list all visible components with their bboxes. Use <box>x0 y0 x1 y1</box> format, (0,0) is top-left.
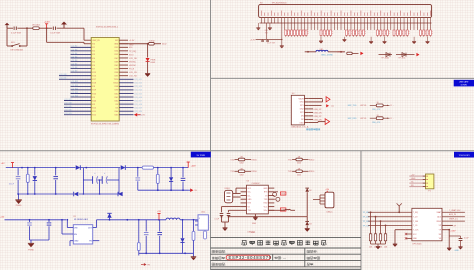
svg-text:100uF: 100uF <box>9 184 15 186</box>
svg-text:IO20: IO20 <box>92 93 96 95</box>
svg-text:IO39: IO39 <box>114 90 118 92</box>
svg-text:0402: 0402 <box>240 175 244 177</box>
svg-text:TP_IRQ: TP_IRQ <box>363 212 371 214</box>
svg-text:LCD_B5: LCD_B5 <box>71 56 77 58</box>
svg-text:0.1uF X5R: 0.1uF X5R <box>50 33 60 35</box>
svg-text:CHIP_PU: CHIP_PU <box>92 40 100 42</box>
svg-text:UD-: UD- <box>248 195 252 197</box>
svg-text:USB_DN: USB_DN <box>314 119 323 121</box>
svg-text:LCD_R3: LCD_R3 <box>129 72 138 74</box>
svg-text:RX0_4.7K: RX0_4.7K <box>372 109 381 111</box>
svg-text:PGND: PGND <box>16 205 22 207</box>
svg-text:LCD_G15: LCD_G15 <box>134 93 142 95</box>
svg-text:USB UART: USB UART <box>459 81 469 84</box>
svg-text:IO19: IO19 <box>92 90 96 92</box>
svg-text:IO13: IO13 <box>114 47 118 49</box>
svg-text:T_DO: T_DO <box>413 217 418 219</box>
svg-text:IO15: IO15 <box>92 72 96 74</box>
svg-text:DN1: DN1 <box>300 102 304 104</box>
svg-text:IO21: IO21 <box>114 54 118 56</box>
svg-text:USB1: USB1 <box>225 188 231 190</box>
svg-text:HSYNC: HSYNC <box>129 65 137 67</box>
svg-text:LCD_G11: LCD_G11 <box>134 79 141 81</box>
svg-text:IO41: IO41 <box>114 97 118 99</box>
svg-text:IO1: IO1 <box>92 47 95 49</box>
svg-text:0R 0402: 0R 0402 <box>32 25 41 27</box>
svg-text:DP2: DP2 <box>300 112 304 114</box>
svg-text:UD+: UD+ <box>248 192 252 194</box>
svg-text:LCD_B17: LCD_B17 <box>64 99 71 101</box>
svg-text:TP_SDA: TP_SDA <box>381 57 389 60</box>
svg-text:LCD_B7: LCD_B7 <box>71 63 77 65</box>
svg-text:LCD_R4: LCD_R4 <box>129 76 138 78</box>
svg-text:RXD0: RXD0 <box>251 171 257 173</box>
svg-text:D2: D2 <box>309 190 311 192</box>
svg-text:RXD0: RXD0 <box>114 83 119 85</box>
svg-text:T_DIN: T_DIN <box>413 221 419 223</box>
svg-text:RXD0: RXD0 <box>309 171 315 173</box>
svg-text:IO7: IO7 <box>92 68 95 70</box>
svg-text:IO1: IO1 <box>115 107 118 109</box>
svg-text:TP_IRQ: TP_IRQ <box>129 51 137 53</box>
svg-text:IO40: IO40 <box>114 93 118 95</box>
svg-text:LCD_B8: LCD_B8 <box>71 67 77 69</box>
svg-text:IO2: IO2 <box>92 51 95 53</box>
svg-text:LCD_G17: LCD_G17 <box>134 100 142 102</box>
svg-text:LCD_G18: LCD_G18 <box>134 104 142 106</box>
svg-text:IO36: IO36 <box>114 72 118 74</box>
svg-text:0.1uF X5R: 0.1uF X5R <box>267 42 276 44</box>
svg-text:TP_DIN: TP_DIN <box>363 221 371 223</box>
svg-text:LCD_B11: LCD_B11 <box>59 78 66 80</box>
svg-text:VREF_2.5: VREF_2.5 <box>449 219 458 221</box>
svg-text:LCD_B18: LCD_B18 <box>64 103 71 105</box>
svg-text:AUX_IN: AUX_IN <box>449 213 456 216</box>
svg-text:+5V: +5V <box>325 189 329 191</box>
svg-text:+3.3V: +3.3V <box>250 39 256 41</box>
svg-text:TXD: TXD <box>288 171 293 173</box>
svg-text:KEY: KEY <box>11 42 16 44</box>
svg-text:IO17: IO17 <box>92 79 96 81</box>
svg-text:TXD: TXD <box>230 171 235 173</box>
svg-text:IO8: IO8 <box>92 86 95 88</box>
svg-text:V3: V3 <box>265 195 267 197</box>
svg-text:(x): (x) <box>332 106 335 108</box>
svg-text:VSYNC: VSYNC <box>129 61 136 63</box>
svg-text:IO6: IO6 <box>92 65 95 67</box>
svg-text:TFT-S070WV20: TFT-S070WV20 <box>272 2 288 4</box>
svg-text:U0TXD: U0TXD <box>360 105 367 107</box>
svg-text:IO5: IO5 <box>92 61 95 63</box>
svg-text:IO16: IO16 <box>92 76 96 78</box>
svg-text:IO9: IO9 <box>92 104 95 106</box>
svg-text:USB-C: USB-C <box>326 212 333 214</box>
svg-text:LCD_G12: LCD_G12 <box>134 83 142 85</box>
svg-text:GND: GND <box>251 232 256 234</box>
svg-text:D3: D3 <box>309 223 311 225</box>
svg-text:LCD_BL: LCD_BL <box>337 52 344 54</box>
svg-text:IO46: IO46 <box>92 100 96 102</box>
svg-text:T_VBAT 3.3V: T_VBAT 3.3V <box>449 209 461 212</box>
svg-text:LCD_G20: LCD_G20 <box>134 111 142 113</box>
svg-text:GND: GND <box>299 122 304 124</box>
svg-text:TP_SCL: TP_SCL <box>398 58 405 60</box>
svg-text:GND: GND <box>411 178 416 180</box>
svg-text:LCD_B16: LCD_B16 <box>71 95 78 97</box>
svg-text:ESP_RXD: ESP_RXD <box>348 118 357 120</box>
svg-text:GND_DGND: GND_DGND <box>321 54 333 56</box>
svg-text:DP1: DP1 <box>300 105 304 107</box>
svg-text:LCD_B15: LCD_B15 <box>71 92 78 94</box>
svg-text:GND: GND <box>129 45 134 47</box>
svg-text:: ---: : --- <box>281 256 286 260</box>
svg-text:ESP32-S3-WROOM-1: ESP32-S3-WROOM-1 <box>96 27 119 29</box>
svg-text:LCD_B14: LCD_B14 <box>71 88 78 90</box>
svg-text:TP_DO: TP_DO <box>363 217 370 219</box>
svg-text:+5V: +5V <box>0 216 4 218</box>
svg-text:RX0_4.7K: RX0_4.7K <box>372 122 381 124</box>
svg-text:ESP32-8048S070: ESP32-8048S070 <box>229 255 272 260</box>
svg-text:TXD: TXD <box>230 159 235 161</box>
svg-text:IO12: IO12 <box>92 115 96 117</box>
svg-text:LCD_G13: LCD_G13 <box>134 86 142 88</box>
svg-text:LCD_B20: LCD_B20 <box>64 110 71 112</box>
svg-text:ESP32-S3-WROOM-1-N8R2: ESP32-S3-WROOM-1-N8R2 <box>91 123 120 125</box>
svg-text:IO10: IO10 <box>92 107 96 109</box>
svg-text:GND: GND <box>455 250 460 252</box>
svg-text:+3.3V: +3.3V <box>129 40 135 42</box>
svg-text:+5V: +5V <box>1 163 5 165</box>
svg-text:IO38: IO38 <box>114 86 118 88</box>
svg-text:XL1509-5.0E1: XL1509-5.0E1 <box>74 219 89 221</box>
svg-text:LCD_B10: LCD_B10 <box>59 74 66 76</box>
svg-text:PGND: PGND <box>28 250 34 252</box>
svg-text:LCD_B19: LCD_B19 <box>64 106 71 108</box>
svg-text:LCD_G19: LCD_G19 <box>134 107 142 109</box>
svg-text:IO14: IO14 <box>114 51 118 53</box>
svg-text:IO11: IO11 <box>92 111 96 113</box>
svg-text:TXD: TXD <box>288 159 293 161</box>
svg-text:LCD_G16: LCD_G16 <box>134 97 142 99</box>
svg-text:RXD0: RXD0 <box>309 159 315 161</box>
svg-text:IO43: IO43 <box>114 115 118 117</box>
svg-text:IO2: IO2 <box>115 104 118 106</box>
svg-text:IO35: IO35 <box>114 68 118 70</box>
svg-text:LCD_B6: LCD_B6 <box>71 60 77 62</box>
svg-text:3V3: 3V3 <box>115 40 118 42</box>
svg-text:VREF: VREF <box>436 221 441 223</box>
svg-text:VBUS: VBUS <box>298 98 304 100</box>
svg-text:LCD_G14: LCD_G14 <box>134 90 142 92</box>
svg-text:IO18: IO18 <box>92 83 96 85</box>
svg-text:IO3: IO3 <box>92 97 95 99</box>
svg-text::: : <box>314 263 315 267</box>
svg-text:USB_DP: USB_DP <box>314 116 323 118</box>
svg-text:0402: 0402 <box>297 163 301 165</box>
svg-text:IO44: IO44 <box>114 111 118 113</box>
svg-text:1: 1 <box>199 218 200 220</box>
svg-text:LCD_B13: LCD_B13 <box>71 85 78 87</box>
svg-text:0402: 0402 <box>297 175 301 177</box>
svg-text:LCD_B4: LCD_B4 <box>71 53 77 55</box>
svg-text:USB_DN: USB_DN <box>314 112 323 114</box>
svg-text:PCLK: PCLK <box>129 69 135 71</box>
svg-text:IO37: IO37 <box>114 76 118 78</box>
svg-text:0402: 0402 <box>240 163 244 165</box>
svg-text:GND: GND <box>74 241 79 243</box>
svg-text:U0TXD: U0TXD <box>360 118 367 120</box>
svg-text:XPT2046: XPT2046 <box>412 243 422 245</box>
svg-text:T_CLK: T_CLK <box>413 230 419 232</box>
svg-text:DOWN: DOWN <box>461 85 468 87</box>
svg-text:T_IRQ: T_IRQ <box>413 212 419 214</box>
svg-text:+5V: +5V <box>157 211 161 213</box>
svg-text:IO42: IO42 <box>114 100 118 102</box>
svg-text:KEY-SW0601: KEY-SW0601 <box>11 49 24 51</box>
svg-text:LCD_B3: LCD_B3 <box>71 49 77 51</box>
svg-text:LCD_B12: LCD_B12 <box>71 81 78 83</box>
svg-text:ESP_TXD: ESP_TXD <box>348 105 357 107</box>
svg-text:IO4: IO4 <box>92 58 95 60</box>
svg-text:RXD0: RXD0 <box>251 159 257 161</box>
svg-text:10KΩ: 10KΩ <box>149 41 155 43</box>
svg-text:LCD_B9: LCD_B9 <box>71 71 77 73</box>
svg-text:DN2: DN2 <box>300 109 304 111</box>
svg-text:IO3: IO3 <box>92 54 95 56</box>
svg-text:IO47: IO47 <box>114 58 118 60</box>
svg-text:+3.3V: +3.3V <box>44 22 50 24</box>
svg-text:IO0: IO0 <box>92 44 95 46</box>
svg-text:USB_MUX_CTL_A: USB_MUX_CTL_A <box>291 126 309 129</box>
svg-text:LCD_B21: LCD_B21 <box>64 113 71 115</box>
svg-text:+24V: +24V <box>191 165 197 167</box>
svg-text:TOUCH SPI: TOUCH SPI <box>459 155 470 157</box>
svg-text:0.1uF X5R: 0.1uF X5R <box>11 33 21 35</box>
svg-text:5V PWR: 5V PWR <box>197 155 206 157</box>
svg-text:+3.3V: +3.3V <box>450 231 456 233</box>
svg-text:LCD_DE: LCD_DE <box>129 58 138 60</box>
svg-text:CH340C: CH340C <box>252 183 261 185</box>
svg-text:USB_DP: USB_DP <box>314 109 323 111</box>
svg-text:TXD0: TXD0 <box>114 79 119 81</box>
svg-text:UD+: UD+ <box>264 210 268 212</box>
svg-text:V3: V3 <box>248 206 250 208</box>
svg-text:LCD_B2: LCD_B2 <box>71 46 77 48</box>
svg-text:TP_CS: TP_CS <box>363 225 370 227</box>
svg-text:IO45: IO45 <box>114 65 118 67</box>
svg-text:GND: GND <box>252 223 257 225</box>
svg-text:IO48: IO48 <box>114 61 118 63</box>
